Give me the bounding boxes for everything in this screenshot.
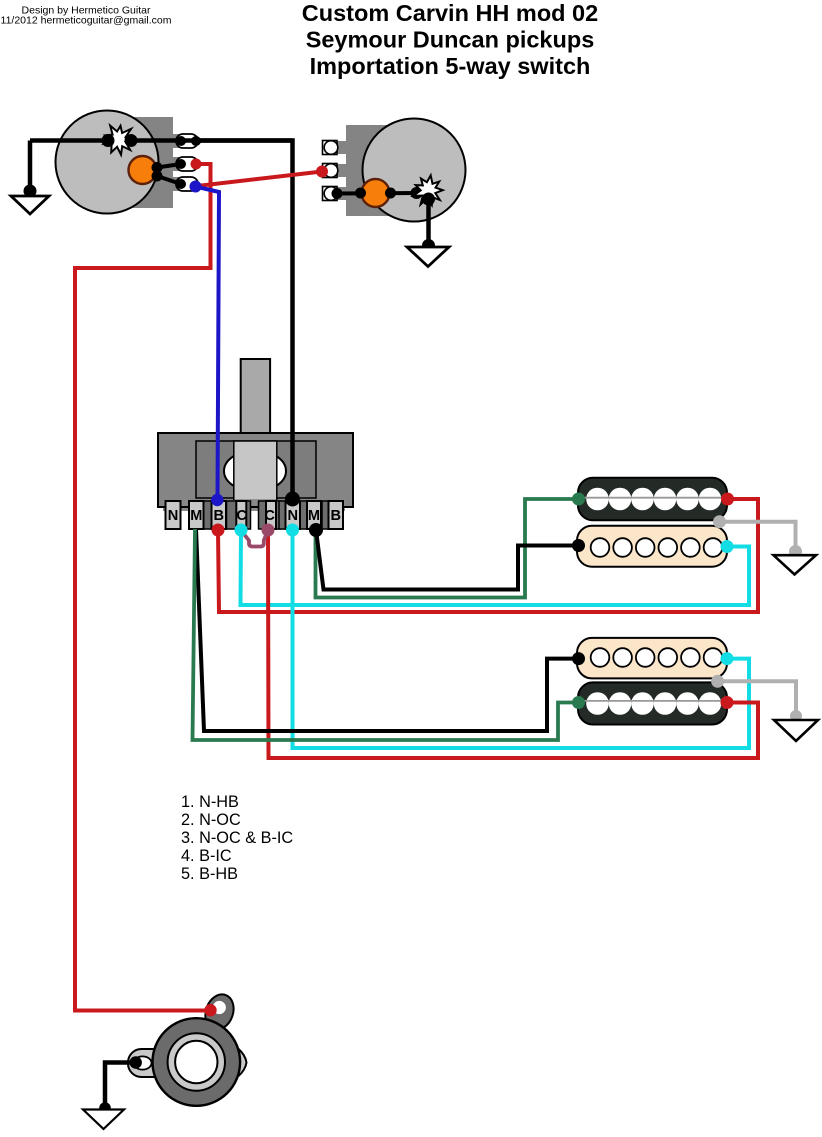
node bridge black — [572, 652, 585, 665]
wire bridge gray to ground — [718, 681, 796, 716]
VOL lug dots — [176, 136, 186, 146]
wire neck green to switch M7 — [316, 499, 579, 598]
solder joint on VOL casing — [104, 126, 135, 155]
output jack right wing — [218, 1038, 247, 1087]
wire VOL casing to ground — [28, 141, 33, 192]
ground symbol jack — [83, 1110, 124, 1130]
switch shaft — [241, 359, 270, 433]
potentiometer VOL body — [131, 117, 173, 208]
svg-text:C: C — [236, 508, 247, 524]
wire VOL lug1 across casing — [30, 138, 293, 143]
svg-text:Seymour Duncan pickups: Seymour Duncan pickups — [306, 27, 595, 53]
node ground dot tone — [422, 239, 435, 252]
svg-text:B: B — [331, 508, 342, 524]
node switch C4 bottom — [235, 524, 248, 537]
ground symbol tone — [407, 247, 449, 267]
ground symbol bridge — [774, 720, 818, 741]
svg-text:Importation 5-way switch: Importation 5-way switch — [310, 53, 591, 79]
node ground dot bridge — [790, 710, 802, 722]
wire neck gray to ground — [720, 522, 796, 552]
node TONE lug3 — [332, 188, 343, 199]
neck pickup black bobbin — [578, 478, 727, 521]
switch body — [158, 433, 353, 507]
node TONE lug2 — [316, 166, 328, 178]
svg-text:M: M — [190, 508, 202, 524]
wire VOL lug3 to TONE lug2 — [197, 172, 322, 187]
wire TONE casing to ground — [426, 196, 431, 246]
node neck green — [572, 493, 585, 506]
svg-text:N: N — [288, 508, 299, 524]
svg-text:1. N-HB: 1. N-HB — [181, 793, 239, 811]
wire bridge green to switch M2 — [193, 529, 579, 740]
node jack sleeve — [130, 1056, 142, 1068]
node neck red — [721, 493, 734, 506]
wire jack sleeve to ground — [105, 1063, 136, 1109]
wire VOL lug2 to jack (hot) — [75, 164, 211, 1011]
svg-text:N: N — [168, 508, 179, 524]
ground symbol neck — [774, 555, 817, 574]
svg-text:3. N-OC & B-IC: 3. N-OC & B-IC — [181, 829, 293, 847]
VOL lug 1 — [176, 134, 198, 148]
capacitor C2 — [362, 179, 390, 207]
svg-text:C: C — [264, 508, 275, 524]
svg-text:4. B-IC: 4. B-IC — [181, 847, 232, 865]
VOL lug 2 — [176, 157, 198, 171]
output jack tip lug — [128, 1049, 209, 1077]
switch tab B8 — [329, 501, 344, 529]
wire bridge cyan to switch N6 — [293, 530, 750, 748]
node switch N6 bottom — [286, 524, 299, 537]
node bridge shield — [711, 675, 724, 688]
svg-text:2. N-OC: 2. N-OC — [181, 811, 241, 829]
potentiometer TONE body — [346, 125, 400, 216]
wire neck red to switch B3 — [218, 499, 758, 612]
node ground dot jack — [99, 1102, 111, 1114]
node bridge cyan — [721, 652, 734, 665]
switch terminal strip — [163, 500, 345, 511]
svg-text:Custom Carvin HH mod 02: Custom Carvin HH mod 02 — [302, 0, 598, 26]
wire VOL lug3 to switch B3 — [196, 187, 220, 500]
ground symbol left — [11, 196, 49, 214]
switch tab B3 — [212, 501, 227, 529]
node switch B3 top — [211, 494, 223, 506]
capacitor C1 leads — [157, 164, 181, 168]
node TONE casing joint — [411, 187, 423, 199]
capacitor C1 — [129, 156, 157, 184]
svg-text:B: B — [214, 508, 225, 524]
switch tab M2 — [189, 501, 204, 529]
svg-text:11/2012 hermeticoguitar@gmail.: 11/2012 hermeticoguitar@gmail.com — [1, 15, 172, 27]
switch tab C5 — [266, 501, 276, 529]
node switch M7 bottom — [309, 523, 323, 537]
node VOL lug2 — [191, 159, 202, 170]
node jack hot — [204, 1004, 216, 1016]
wire bridge red to switch C5 — [268, 530, 758, 758]
bridge pickup cream bobbin — [577, 638, 727, 679]
node neck shield — [713, 515, 726, 528]
switch tab N1 — [166, 501, 181, 529]
node VOL casing joints — [102, 134, 115, 147]
TONE lug 3 — [323, 187, 338, 201]
svg-text:5. B-HB: 5. B-HB — [181, 865, 238, 883]
wire VOL lug1 to switch N6 — [196, 141, 293, 500]
node ground dot left — [24, 185, 37, 198]
node neck cyan — [721, 540, 734, 553]
TONE lug 1 — [323, 141, 338, 155]
svg-text:M: M — [308, 508, 320, 524]
switch tab C4 — [236, 501, 246, 529]
node neck black — [572, 539, 585, 552]
node switch C5 bottom — [262, 524, 275, 537]
wire TONE lug3 to casing — [337, 191, 417, 196]
output jack sleeve tab — [201, 990, 239, 1033]
wire neck black to switch M7 — [316, 530, 578, 590]
bridge pickup black bobbin — [578, 682, 727, 724]
node C2 leads — [355, 188, 366, 199]
solder joint on TONE casing — [413, 175, 443, 205]
VOL lug 3 — [176, 177, 198, 191]
node bridge red — [721, 696, 734, 709]
node switch N6 top — [285, 492, 300, 507]
wire bridge black to switch M2 — [196, 529, 579, 731]
output jack cup — [153, 1018, 241, 1106]
switch tab M7 — [307, 501, 321, 529]
wire neck cyan to switch C4 — [241, 530, 750, 605]
jumper C4-C5 — [242, 531, 268, 547]
node switch B3 bottom — [212, 524, 225, 537]
switch tab N6 — [286, 501, 301, 529]
node bridge green — [572, 696, 585, 709]
node ground dot neck — [789, 545, 802, 558]
neck pickup cream bobbin — [577, 526, 727, 567]
TONE lug 2 — [323, 164, 338, 178]
